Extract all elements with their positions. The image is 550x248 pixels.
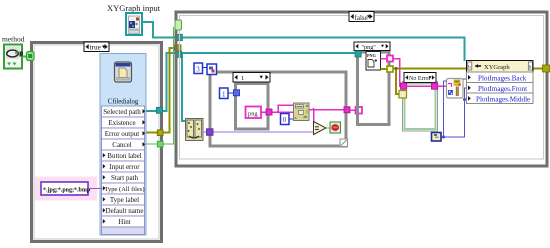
tunnel pink no-error left [401, 83, 407, 89]
svg-text:Start path: Start path [111, 174, 139, 182]
tunnel pink no-error right [432, 83, 438, 89]
svg-text:*.jpg;*.png;*.bmp: *.jpg;*.png;*.bmp [43, 188, 91, 194]
selector terminal (cancel) on false case [175, 20, 182, 30]
case structure No Error [403, 73, 438, 132]
match pattern icon [294, 103, 310, 121]
property row PlotImages.Front [467, 83, 534, 94]
row Selected path [102, 106, 146, 117]
loop corner resize glyph [340, 139, 348, 147]
svg-text:3: 3 [196, 66, 200, 74]
numeric constant 0 [281, 114, 290, 125]
row Type label [102, 194, 145, 205]
draw flattened pixmap vi icon [447, 79, 464, 99]
row Input error [102, 161, 145, 172]
wire error output (olive) [146, 48, 176, 133]
svg-text:XYGraph: XYGraph [484, 64, 510, 71]
tunnel olive on false case [175, 45, 182, 51]
tunnel teal refnum on false case [176, 34, 182, 40]
wire method to case selector [22, 56, 27, 58]
wire png constant out (pink) [261, 105, 293, 113]
row Type (All files) [102, 183, 145, 194]
case structure left (true case) [32, 43, 162, 242]
wire path string (purple) [213, 131, 314, 133]
tunnel pink on case 1 [266, 109, 272, 115]
numeric constant 3 [194, 63, 203, 74]
svg-text:No Error: No Error [409, 76, 431, 82]
svg-text:PlotImages.Front: PlotImages.Front [478, 85, 527, 93]
numeric constant 1 [220, 88, 229, 99]
tunnel olive on false case right [543, 65, 550, 72]
write png vi icon [366, 52, 381, 71]
tunnel pink on while loop [344, 107, 350, 113]
property row PlotImages.Back [467, 72, 534, 83]
svg-text:Selected path: Selected path [103, 108, 141, 116]
property row PlotImages.Middle [467, 93, 534, 104]
string constant *.jpg;*.png;*.bmp with pink halo [35, 177, 97, 201]
wire icon to tunnel purple [203, 131, 207, 133]
tunnel teal on png case [355, 51, 361, 57]
svg-text:Type label: Type label [110, 196, 139, 204]
string constant png [246, 107, 262, 119]
wire cancel (green) [146, 27, 173, 144]
wire 3 to N terminal [203, 67, 208, 69]
tunnel purple on while loop [207, 129, 214, 136]
case structure 1 (inner) [233, 73, 270, 129]
svg-text:Error output: Error output [105, 130, 139, 138]
svg-text:Default name: Default name [106, 207, 144, 215]
row Hint [102, 216, 145, 227]
wire string constant to Type row [88, 188, 102, 190]
wire png vi olive out [381, 67, 544, 94]
row Start path [102, 172, 145, 183]
invoke node CFileDialog body [100, 54, 146, 236]
svg-text:Cfiledialog: Cfiledialog [108, 99, 139, 106]
wire 0 to match pattern [289, 118, 294, 120]
invoke node rows [102, 106, 146, 235]
row Error output [102, 128, 146, 139]
equal comparator [314, 122, 327, 135]
while loop [210, 72, 346, 146]
svg-text:Cancel: Cancel [112, 141, 131, 149]
tunnel error cluster yellow [399, 91, 407, 99]
svg-text:Type (All files): Type (All files) [105, 186, 145, 193]
svg-text:1: 1 [222, 90, 226, 98]
invoke node class icon [115, 62, 132, 82]
row Button label [102, 150, 145, 161]
svg-text:Input error: Input error [109, 163, 140, 171]
image data constant [432, 133, 442, 142]
wire match pattern out (pink) [309, 108, 344, 125]
svg-text:1: 1 [241, 75, 244, 82]
svg-text:false: false [355, 14, 368, 22]
row empty [102, 227, 145, 235]
control refnum XYGraph input [126, 13, 142, 35]
violet image wires [442, 79, 468, 139]
svg-text:Button label: Button label [107, 152, 141, 160]
selector terminal (method) on true case [27, 52, 35, 61]
wire png vi pink out [381, 59, 402, 87]
svg-text:Hint: Hint [118, 218, 131, 226]
row Cancel [102, 139, 146, 150]
wire 1 to tunnel [228, 92, 234, 94]
path to string icon [186, 119, 204, 141]
tunnel error output on true case [157, 130, 163, 136]
case structure right (false case) [176, 12, 547, 166]
svg-text:png: png [248, 110, 258, 117]
svg-text:true: true [90, 43, 101, 52]
row Default name [102, 205, 145, 216]
wire pink inside no-error [407, 85, 432, 87]
enum constant method [4, 45, 23, 69]
svg-text:a: a [295, 115, 297, 120]
property node XYGraph [467, 61, 534, 73]
svg-text:"png": "png" [362, 44, 377, 51]
loop count terminal N [207, 64, 217, 75]
wire selected path (teal) [146, 52, 356, 121]
case selector label false [349, 12, 374, 22]
svg-text:PlotImages.Middle: PlotImages.Middle [476, 95, 530, 103]
tunnel cancel on true case [157, 141, 163, 147]
wire XYGraph refnum to property node [142, 22, 465, 61]
case selector label true [84, 42, 109, 52]
svg-text:0: 0 [283, 116, 287, 124]
svg-text:method: method [2, 35, 25, 44]
case structure "png" [354, 42, 390, 125]
svg-text:Existence: Existence [108, 119, 135, 127]
svg-text:PlotImages.Back: PlotImages.Back [478, 74, 527, 82]
row Existence [102, 117, 146, 128]
wire pink to draw icon [438, 85, 447, 87]
tunnel selected path on true case [156, 107, 162, 113]
wire loop to png case [350, 109, 356, 111]
svg-text:PNG: PNG [367, 53, 377, 58]
svg-text:XYGraph input: XYGraph input [107, 3, 161, 13]
tunnel teal on false case [176, 51, 182, 57]
conditional terminal (stop if true) [330, 122, 341, 133]
tunnel olive ring out png case [387, 66, 393, 72]
tunnel pink ring out png case [387, 56, 393, 62]
tunnel pink ring on png case [356, 107, 363, 114]
wire equal to conditional terminal [326, 127, 330, 129]
tunnel blue on case 1 [234, 90, 240, 96]
